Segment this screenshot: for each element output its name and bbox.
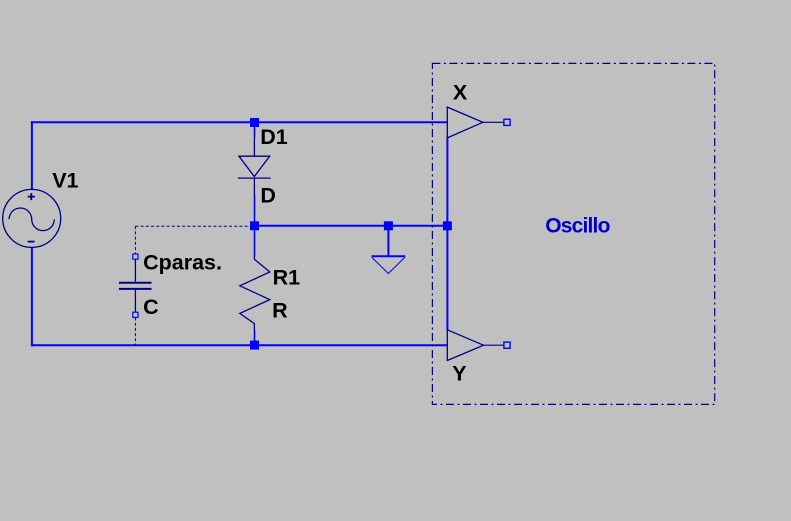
svg-text:Y: Y	[452, 361, 466, 385]
svg-text:D1: D1	[260, 125, 288, 149]
svg-text:Oscillo: Oscillo	[545, 215, 609, 238]
wire stub node to resistor top	[254, 231, 256, 257]
svg-text:R1: R1	[273, 266, 301, 290]
svg-text:R: R	[272, 299, 288, 323]
wire ground stub	[387, 230, 389, 256]
junction node at resistor bottom	[250, 341, 259, 350]
ground	[372, 256, 406, 273]
junction node at diode bottom / middle rail	[250, 221, 259, 230]
oscilloscope boundary box	[432, 63, 714, 404]
wire stub node to diode anode	[254, 127, 256, 138]
probe Y (oscilloscope input)	[447, 330, 504, 361]
svg-text:V1: V1	[52, 169, 78, 193]
svg-text:C: C	[143, 295, 159, 319]
svg-text:Cparas.: Cparas.	[143, 251, 222, 275]
wire bottom rail from V1 to Y probe	[31, 344, 448, 346]
diode D1	[238, 138, 271, 196]
wire V1 bottom vertical	[31, 248, 33, 347]
dashed link capacitor bottom	[134, 318, 136, 346]
svg-text:X: X	[453, 81, 468, 105]
wire middle rail from diode node to scope node	[255, 225, 448, 227]
dashed link capacitor top	[134, 226, 136, 254]
voltage source V1	[3, 189, 61, 247]
wire stub resistor bottom to node	[254, 329, 256, 341]
junction node at diode top	[250, 118, 259, 127]
capacitor Cparas terminal top	[133, 254, 138, 259]
junction node at ground stub	[384, 221, 393, 230]
wire top rail from V1 top to X probe	[31, 121, 448, 123]
wire scope vertical between X and Y probes	[446, 138, 448, 330]
junction node at scope vertical	[443, 221, 452, 230]
capacitor Cparas terminal bottom	[133, 312, 138, 317]
svg-text:D: D	[260, 184, 276, 208]
dashed link capacitor to middle node	[135, 225, 250, 227]
pin square X	[504, 119, 510, 125]
pin square Y	[504, 342, 510, 348]
wire V1 top vertical	[31, 121, 33, 190]
resistor R1	[240, 256, 270, 329]
probe X (oscilloscope input)	[447, 107, 504, 138]
wire stub diode cathode to node	[254, 195, 256, 222]
capacitor Cparas	[119, 259, 152, 312]
